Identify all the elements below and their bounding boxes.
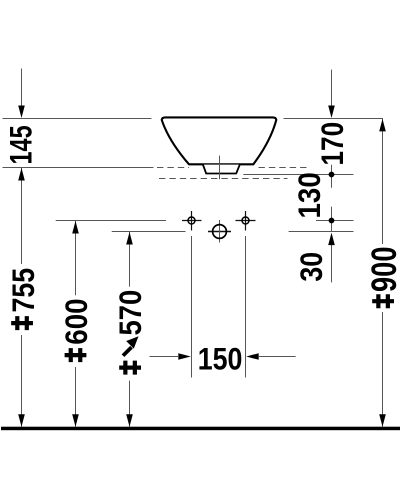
arrowhead down at floor (570 dim) xyxy=(126,414,133,427)
arrowhead down at floor (600 dim) xyxy=(72,414,79,427)
dim 150 arrow tail left xyxy=(150,356,179,358)
spout level line left segment xyxy=(112,231,186,233)
dim 170 vertical line xyxy=(331,70,333,107)
dim 130 stub through upper dot xyxy=(331,165,333,188)
dim 570 vertical line lower xyxy=(129,381,131,427)
dim 600 vertical line lower xyxy=(75,367,77,427)
top rim reference line left segment xyxy=(3,118,152,120)
svg-text:150: 150 xyxy=(198,343,243,377)
faucet hole left crosshair xyxy=(182,220,202,222)
arrowhead down at top line (145 dim) xyxy=(18,106,25,119)
130-dim top reference line xyxy=(243,174,353,176)
extension line left of 150 dim xyxy=(191,236,193,378)
svg-text:130: 130 xyxy=(292,172,327,218)
basin centre line xyxy=(219,156,221,180)
dim 600 vertical line upper xyxy=(75,221,77,296)
arrowhead down at floor (755 dim) xyxy=(18,414,25,427)
arrowhead up at hole line (600 dim) xyxy=(72,221,79,234)
spout level line right segment xyxy=(289,231,354,233)
faucet-hole level line left segment xyxy=(56,220,166,222)
diagonal adjustability arrow of 570 xyxy=(123,338,137,356)
adjustable symbol of 900 xyxy=(372,294,394,308)
dim 150 arrow tail right xyxy=(259,356,296,358)
basin foot / drain base xyxy=(203,165,240,174)
adjustable symbol of 755 xyxy=(11,316,33,330)
centre spout hole crosshair horizontal xyxy=(208,231,231,233)
arrowhead down at top line (170 dim) xyxy=(328,106,335,119)
top rim reference line right segment xyxy=(284,118,384,120)
dim 755 vertical line lower xyxy=(21,335,23,427)
dim 145 vertical line top xyxy=(21,69,23,108)
dim 130 stub through lower dot xyxy=(331,207,333,232)
svg-text:30: 30 xyxy=(295,252,329,282)
dim 900 vertical line upper xyxy=(382,119,384,245)
centre spout hole crosshair vertical xyxy=(219,220,221,243)
seat plane reference line left solid segment xyxy=(3,167,154,169)
svg-text:755: 755 xyxy=(7,268,41,313)
arrowhead up at seat line (145/755 shared) xyxy=(18,168,25,181)
dim 755 vertical line upper xyxy=(21,168,23,265)
arrowhead left at right ext line (150 dim) xyxy=(246,353,259,360)
floor line xyxy=(1,427,400,431)
seat plane dashed line left part xyxy=(157,167,189,169)
arrowhead right at left ext line (150 dim) xyxy=(178,353,191,360)
extension line right of 150 dim xyxy=(245,236,247,378)
dot terminator upper (130 dim) xyxy=(329,172,335,178)
adjustable symbol of 600 xyxy=(65,348,87,362)
lower dashed reference line xyxy=(159,178,288,180)
basin bowl outline xyxy=(162,117,277,164)
adjustable symbol of 570 xyxy=(119,361,141,375)
arrowhead up at spout line (30 dim) xyxy=(328,233,335,246)
arrowhead up at spout line (570 dim) xyxy=(126,232,133,245)
dim 900 vertical line lower xyxy=(382,312,384,427)
faucet-hole level line right segment xyxy=(316,220,354,222)
seat plane dashed line right part xyxy=(259,167,309,169)
svg-text:145: 145 xyxy=(3,125,38,164)
svg-text:900: 900 xyxy=(365,246,400,292)
centre spout hole circle xyxy=(213,225,227,239)
dim 570 vertical line upper xyxy=(129,232,131,287)
dim 30 tail below arrow xyxy=(331,244,333,282)
arrowhead down at floor (900 dim) xyxy=(379,414,386,427)
faucet hole left circle xyxy=(188,217,195,224)
dot terminator lower (130 dim) xyxy=(329,218,335,224)
svg-text:170: 170 xyxy=(316,122,351,166)
faucet hole right circle xyxy=(242,217,249,224)
svg-text:570: 570 xyxy=(113,290,148,336)
faucet hole right crosshair xyxy=(236,220,256,222)
arrowhead up at top line (900 dim) xyxy=(379,119,386,131)
svg-text:600: 600 xyxy=(59,298,94,344)
